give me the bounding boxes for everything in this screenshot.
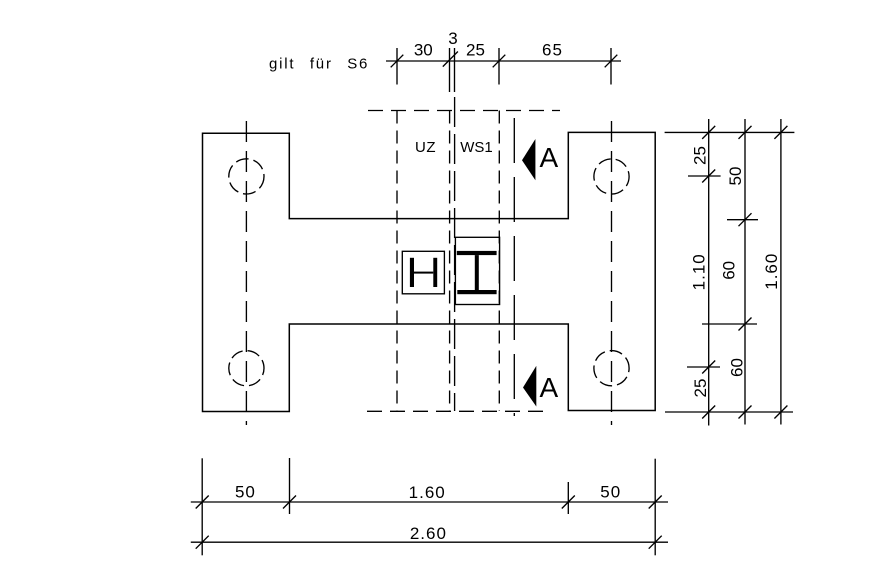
top dim slash 1 xyxy=(391,55,404,68)
right dim vertical line 1 xyxy=(708,119,710,426)
right ext line hole center bottom xyxy=(687,366,720,368)
svg-text:50: 50 xyxy=(726,167,745,186)
hidden edge bottom horizontal xyxy=(367,410,551,412)
right dim vertical line 3 xyxy=(780,119,782,425)
right ext line bottom edge xyxy=(665,411,793,413)
right slash l3 top xyxy=(774,126,787,139)
svg-text:60: 60 xyxy=(728,358,747,377)
centerline right bolt row xyxy=(611,121,613,425)
top dim tick 3 xyxy=(498,48,500,85)
svg-text:2.60: 2.60 xyxy=(410,524,447,543)
right slash l3 bottom xyxy=(774,406,787,419)
bolt hole circle bottom-left xyxy=(229,351,264,386)
bottom dim line 1 xyxy=(191,501,668,503)
right dim vertical line 2 xyxy=(744,119,746,425)
hidden edge WS1 right xyxy=(498,111,500,412)
section arrow top xyxy=(522,139,535,180)
bottom ext left edge xyxy=(201,458,203,555)
plate outline (H-shaped slab plan) xyxy=(203,132,656,411)
svg-text:25: 25 xyxy=(690,146,709,165)
bottom slash l1 x289 xyxy=(283,496,296,509)
top dim tick 4 xyxy=(610,48,612,85)
section arrow bottom xyxy=(523,366,536,407)
bolt hole circle bottom-right xyxy=(594,351,629,386)
svg-text:A: A xyxy=(540,372,559,403)
hidden edge UZ right xyxy=(449,111,451,412)
right slash l1 bottom xyxy=(702,406,715,419)
hidden edge WS1 left xyxy=(454,97,456,411)
beam symbol box H xyxy=(402,251,444,293)
top dim tick 2a xyxy=(449,48,451,92)
svg-text:A: A xyxy=(540,142,559,173)
right ext line bar bottom xyxy=(702,323,757,325)
top dim slash 3 xyxy=(493,55,506,68)
svg-text:25: 25 xyxy=(691,379,710,398)
right ext line top edge xyxy=(665,131,795,133)
right slash l2 top xyxy=(739,126,752,139)
centerline left bolt row xyxy=(245,121,247,425)
top dim tick 1 xyxy=(396,48,398,85)
bottom ext right edge xyxy=(654,459,656,556)
svg-text:1.60: 1.60 xyxy=(762,253,781,290)
bottom ext left rect right xyxy=(289,458,291,514)
right slash l1 y367 xyxy=(702,361,715,374)
right slash l2 bottom xyxy=(739,406,752,419)
right slash l1 y176 xyxy=(702,170,715,183)
svg-text:60: 60 xyxy=(720,261,739,280)
svg-text:50: 50 xyxy=(600,483,621,502)
svg-text:50: 50 xyxy=(235,483,256,502)
I profile symbol xyxy=(457,251,497,294)
right slash l2 y324 xyxy=(739,318,752,331)
bottom slash l1 x202 xyxy=(196,496,209,509)
bottom slash l1 x655 xyxy=(649,496,662,509)
top dim slash 4 xyxy=(605,55,618,68)
bottom slash l2 x202 xyxy=(196,536,209,549)
beam symbol box I xyxy=(455,237,499,304)
bottom slash l1 x568 xyxy=(562,496,575,509)
svg-text:25: 25 xyxy=(466,41,485,60)
hidden edge top horizontal xyxy=(368,110,560,112)
svg-text:1.60: 1.60 xyxy=(409,483,446,502)
right ext line hole center top xyxy=(688,175,721,177)
top dim tick 2b xyxy=(454,48,456,92)
svg-text:WS1: WS1 xyxy=(460,139,493,156)
bottom slash l2 x655 xyxy=(649,536,662,549)
svg-text:1.10: 1.10 xyxy=(690,253,709,290)
bottom ext right rect left xyxy=(567,482,569,514)
hidden edge UZ left xyxy=(396,111,398,412)
top dim slash 2 xyxy=(443,52,458,67)
svg-text:UZ: UZ xyxy=(415,139,436,156)
bolt hole circle top-right xyxy=(594,159,629,194)
top dimension line xyxy=(386,60,621,62)
bottom dim line 2 xyxy=(191,541,668,543)
right slash l1 top xyxy=(702,126,715,139)
right ext line bar top xyxy=(727,219,758,221)
right slash l2 y219 xyxy=(739,213,752,226)
svg-text:3: 3 xyxy=(448,29,457,48)
svg-text:gilt für S6: gilt für S6 xyxy=(269,56,369,73)
svg-text:30: 30 xyxy=(414,41,433,60)
section cut line A-A xyxy=(513,118,515,416)
H profile symbol xyxy=(410,258,437,287)
bolt hole circle top-left xyxy=(229,159,264,194)
svg-text:65: 65 xyxy=(542,41,563,60)
